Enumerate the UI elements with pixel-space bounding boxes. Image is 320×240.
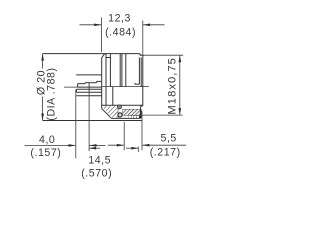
12,3 left extension line <box>101 18 103 53</box>
Ø20 dimension line lower segment <box>42 97 44 121</box>
4,0 dimension right arrow tail <box>90 144 106 146</box>
svg-text:4,0: 4,0 <box>39 134 55 146</box>
svg-text:14,5: 14,5 <box>88 155 111 167</box>
12,3 right arrowhead <box>143 24 150 27</box>
Ø20 top arrowhead <box>41 54 44 61</box>
node flange bottom chamfer <box>102 109 111 119</box>
14,5 right arrowhead <box>131 147 138 150</box>
svg-text:5,5: 5,5 <box>161 133 177 145</box>
node front recess tick <box>134 83 136 84</box>
spring coil circle 3 <box>134 116 137 119</box>
4,0 dimension left arrow tail <box>25 144 76 146</box>
wire bottom edge of shell + Ø20 bottom extension <box>43 120 142 122</box>
12,3 dimension right arrow tail <box>143 24 164 26</box>
wire flange groove step <box>106 57 110 59</box>
wire pin bottom edge <box>78 86 102 88</box>
spring coil circle 2 <box>131 116 134 119</box>
node body detail vertical 2 <box>109 54 111 87</box>
svg-text:M18x0,75: M18x0,75 <box>167 57 179 115</box>
4,0 left extension line <box>75 90 77 159</box>
wire rear collar bottom edge <box>76 95 102 97</box>
node front recess vertical 2 <box>140 57 142 86</box>
svg-text:(.484): (.484) <box>105 26 136 38</box>
node body detail vertical 5 <box>125 54 127 87</box>
spring coil circle 1 <box>129 116 132 119</box>
14,5 right extension line <box>137 147 139 152</box>
svg-text:12,3: 12,3 <box>108 13 131 25</box>
svg-text:(.157): (.157) <box>30 147 61 159</box>
wire front lower step 1 <box>141 105 143 107</box>
wire nose top edge <box>140 54 143 56</box>
node lower pin tip face <box>76 89 78 92</box>
node flange left face <box>101 58 103 109</box>
14,5 dimension line right segment <box>126 147 138 149</box>
spring coil circle 4 <box>137 116 140 119</box>
wire pin top edge segment 3 <box>97 80 102 82</box>
O-ring section lower <box>118 113 122 117</box>
14,5 dimension line left segment <box>89 147 100 149</box>
wire lower pin bottom edge <box>77 91 102 93</box>
node flange top chamfer <box>102 54 105 58</box>
M18 top arrowhead <box>179 55 182 62</box>
node body detail vertical 1 <box>105 54 107 106</box>
wire front recess foot <box>135 83 140 85</box>
wire rear collar top edge <box>76 74 102 76</box>
12,3 left arrowhead <box>94 24 101 27</box>
Ø20 dimension line upper segment <box>42 54 44 69</box>
thread end cap dark <box>140 109 142 118</box>
wire lower pin top edge <box>77 88 102 90</box>
5,5 right arrowhead <box>142 144 149 147</box>
5,5 left extension line <box>123 122 125 150</box>
node pin step 2 <box>96 81 98 82</box>
node insulator section front face <box>117 105 119 118</box>
5,5 right extension line <box>141 111 143 150</box>
4,0 right extension line <box>88 92 90 151</box>
node front lower vertical <box>140 106 142 111</box>
node front shoulder top <box>139 54 141 56</box>
M18 bottom extension line <box>142 114 183 116</box>
node front recess vertical 1 <box>138 57 140 84</box>
wire front lower step 2 <box>141 110 142 112</box>
14,5 left arrowhead <box>89 147 96 150</box>
node pin rear shoulder <box>88 83 90 92</box>
5,5 dimension right arrow tail <box>142 144 186 146</box>
node front face <box>142 55 144 106</box>
Ø20 bottom arrowhead <box>41 114 44 121</box>
wire pin top edge segment 2 <box>85 82 97 84</box>
svg-text:(.217): (.217) <box>150 147 181 159</box>
wire insulator section top line <box>102 104 143 106</box>
4,0 right arrowhead <box>90 144 97 147</box>
5,5 left arrowhead <box>117 144 124 147</box>
O-ring section upper <box>118 105 122 109</box>
wire thread root line <box>111 117 140 119</box>
thread teeth hatched band <box>123 109 142 115</box>
wire centerline stub left <box>64 86 84 88</box>
node body detail vertical 4 <box>121 54 123 87</box>
node pin step 1 <box>84 83 86 84</box>
wire pin top edge segment 1 <box>78 83 85 85</box>
svg-text:(.570): (.570) <box>81 167 112 179</box>
node body detail vertical 3 <box>119 54 121 87</box>
node insulator rear vertical <box>112 87 114 106</box>
wire top edge of shell O20 + Ø20 top extension <box>43 53 140 55</box>
M18 bottom arrowhead <box>179 108 182 115</box>
12,3 dimension left arrow tail <box>80 24 102 26</box>
spring coil band <box>129 116 141 119</box>
svg-text:(DIA .788): (DIA .788) <box>45 67 57 120</box>
M18 top extension line <box>141 54 184 56</box>
4,0 left arrowhead <box>69 144 76 147</box>
M18 dimension line <box>179 55 181 115</box>
12,3 right extension line <box>142 21 144 56</box>
wire centerline across body <box>102 86 149 88</box>
insulator hatch region <box>102 106 118 118</box>
5,5 dimension left arrow tail <box>108 144 124 146</box>
node pin tip face <box>77 84 79 87</box>
